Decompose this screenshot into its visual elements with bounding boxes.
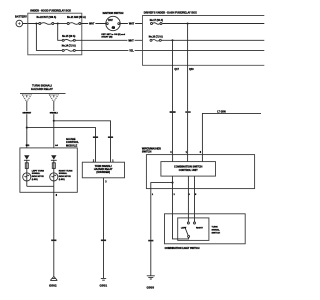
svg-text:RIGHT: RIGHT	[196, 227, 203, 229]
wire node A down to row 2	[58, 24, 62, 41]
svg-text:SIGNAL: SIGNAL	[32, 172, 41, 175]
ground G503	[147, 276, 155, 290]
continuation triangle left	[23, 95, 32, 102]
svg-text:WHT: WHT	[128, 41, 134, 43]
gauge ground wire down	[53, 192, 55, 239]
svg-text:No.22 BAT (100 A): No.22 BAT (100 A)	[36, 16, 56, 19]
wire YEL row3 to under-dash box	[76, 49, 143, 53]
battery B1	[15, 14, 27, 26]
fuse No.10 (7.5 A)	[149, 36, 163, 42]
connector on combination ground wire	[148, 240, 153, 242]
svg-text:Q17: Q17	[174, 68, 179, 71]
gauge control module label	[66, 137, 79, 147]
wire to sounder pin 1	[54, 121, 111, 162]
svg-text:Q16: Q16	[189, 68, 194, 71]
junction on ignition fused line	[171, 39, 173, 41]
junction left	[26, 127, 28, 129]
svg-text:No.14 (7.5 A): No.14 (7.5 A)	[62, 45, 76, 48]
fuse No.22 BAT (100 A)	[36, 16, 56, 25]
turn signal/hazard relay continuation label	[20, 84, 66, 94]
ground G501	[100, 278, 108, 287]
combination switch box	[146, 155, 254, 189]
junction on battery fused line	[187, 22, 189, 24]
svg-text:CONTROL UNIT: CONTROL UNIT	[179, 169, 198, 172]
combination ground wire lower	[150, 241, 152, 275]
left contact	[187, 222, 189, 224]
svg-text:BATTERY: BATTERY	[15, 14, 27, 18]
wire WHT fuse21 to ignition switch	[81, 22, 106, 26]
wire right to turn signal switch	[194, 189, 196, 222]
svg-text:SIGNAL: SIGNAL	[59, 172, 68, 175]
wire control unit right signal	[194, 176, 196, 189]
wire common inside light switch	[173, 214, 189, 239]
wire pin6 to control unit	[201, 155, 203, 162]
svg-text:(SOUNDER): (SOUNDER)	[96, 171, 110, 174]
svg-text:WHT: WHT	[129, 24, 135, 26]
svg-text:No.21 IGN (50 A): No.21 IGN (50 A)	[67, 16, 86, 19]
svg-text:LEFT TURN: LEFT TURN	[32, 170, 45, 172]
in-line connector on sounder right wire	[108, 136, 113, 138]
wire fuse10 output	[162, 39, 265, 41]
svg-text:START (III): START (III)	[101, 35, 112, 38]
wire WHT ignition to under-dash box	[120, 22, 143, 26]
wire YEL through under-dash box	[143, 49, 265, 51]
wire battery to under-hood box	[23, 23, 39, 25]
connector on gauge ground wire	[51, 240, 56, 242]
wire control unit common	[172, 176, 174, 189]
fuse No.21 IGN (50 A)	[67, 16, 86, 25]
svg-text:G503: G503	[147, 285, 155, 289]
sounder ground wire	[103, 178, 105, 240]
switch lever	[188, 235, 190, 237]
wire drop from battery fused line	[187, 24, 189, 112]
wire drop from ignition fused line	[172, 40, 174, 111]
node A junction	[57, 22, 59, 24]
wire to combination switch pin 1	[187, 113, 189, 155]
wire GRN/WHT from left triangle	[22, 101, 32, 147]
in-line connector on sounder left wire	[93, 136, 98, 138]
svg-text:IGNITION SWITCH: IGNITION SWITCH	[103, 12, 124, 15]
under-hood fuse/relay box	[28, 9, 82, 54]
node B junction	[35, 22, 37, 24]
svg-text:SIGNAL: SIGNAL	[212, 229, 221, 232]
in-line connector on left drop	[170, 111, 176, 113]
combination light switch box	[165, 214, 246, 244]
wire LT GRN	[202, 111, 261, 154]
svg-text:COMBINATION LIGHT SWITCH: COMBINATION LIGHT SWITCH	[165, 247, 200, 250]
wire GRN/BLU from right triangle	[49, 101, 58, 147]
sounder ground wire lower	[103, 241, 105, 278]
svg-text:GRN/BLU: GRN/BLU	[50, 113, 59, 115]
svg-text:G501: G501	[100, 284, 108, 288]
wiper/washer switch label	[142, 148, 161, 154]
gauge ground exit wire	[53, 186, 55, 192]
driver's under-dash fuse/relay box	[143, 12, 265, 66]
ground branch inside combination switch	[151, 183, 173, 189]
svg-text:WHT: WHT	[89, 24, 95, 26]
svg-text:INDICATOR: INDICATOR	[59, 175, 71, 178]
svg-text:BAT: BAT	[108, 19, 113, 22]
wire common to turn signal switch	[172, 189, 174, 214]
combination switch control unit	[161, 162, 216, 177]
wire WHT row2 to under-dash box	[76, 39, 143, 43]
svg-text:YEL: YEL	[129, 51, 134, 53]
svg-text:No.10 (7.5 A): No.10 (7.5 A)	[149, 36, 163, 39]
svg-text:MODULE: MODULE	[66, 143, 78, 147]
combination switch ground wire	[150, 189, 152, 240]
svg-text:No.17 (10 A): No.17 (10 A)	[150, 19, 163, 22]
svg-text:(LED): (LED)	[59, 179, 65, 181]
fuse No.17 (10 A)	[150, 19, 163, 24]
svg-text:LT GRN: LT GRN	[217, 111, 226, 113]
wire fuse22 to fuse21	[54, 23, 67, 25]
wire control unit left signal	[187, 176, 189, 189]
svg-text:GRN/WHT: GRN/WHT	[23, 113, 32, 115]
wire node B down to row 3	[36, 24, 62, 51]
svg-text:RIGHT TURN: RIGHT TURN	[59, 170, 73, 172]
svg-text:LEFT: LEFT	[181, 227, 187, 229]
svg-text:UNDER - HOOD FUSE/RELAY BOX: UNDER - HOOD FUSE/RELAY BOX	[30, 9, 71, 12]
turn signal switch inner box	[178, 218, 209, 241]
junction common/ground	[171, 182, 173, 184]
ground rail inside gauge module	[27, 185, 54, 187]
ground G502	[49, 276, 57, 287]
gauge ground wire lower	[53, 241, 55, 276]
wire fuse17 output	[162, 23, 264, 25]
fuse No.15 (10 A)	[62, 35, 75, 41]
wire to combination switch pin 4	[172, 113, 174, 155]
svg-text:INDICATOR: INDICATOR	[32, 175, 44, 178]
in-line connector on right drop	[185, 111, 190, 113]
svg-text:No.15 (10 A): No.15 (10 A)	[62, 35, 75, 38]
fuse No.14 (7.5 A)	[62, 45, 76, 52]
svg-text:SWITCH: SWITCH	[142, 151, 152, 154]
svg-text:HAZARD RELAY: HAZARD RELAY	[31, 87, 53, 91]
connector on sounder ground wire	[101, 240, 106, 242]
right contact	[194, 222, 196, 224]
svg-text:DRIVER'S UNDER - DASH FUSE/REL: DRIVER'S UNDER - DASH FUSE/RELAY BOX	[144, 12, 197, 15]
svg-text:G502: G502	[49, 284, 57, 288]
right turn signal indicator LED	[50, 155, 73, 186]
wire left to turn signal switch	[187, 189, 189, 222]
svg-text:(LED): (LED)	[32, 179, 38, 181]
ignition switch	[101, 12, 125, 38]
left turn signal indicator LED	[23, 155, 45, 186]
svg-text:TURN: TURN	[212, 227, 218, 229]
continuation triangle right	[50, 95, 59, 102]
gauge control module box	[20, 148, 77, 192]
wire to sounder pin 2	[27, 128, 96, 163]
turn signal/hazard relay (sounder) box	[82, 162, 124, 178]
wire pin1 to control unit	[187, 155, 189, 162]
wire pin4 to control unit	[172, 155, 174, 162]
junction right	[53, 120, 55, 122]
svg-text:SWITCH: SWITCH	[212, 232, 221, 234]
turn signal switch label	[212, 227, 221, 235]
